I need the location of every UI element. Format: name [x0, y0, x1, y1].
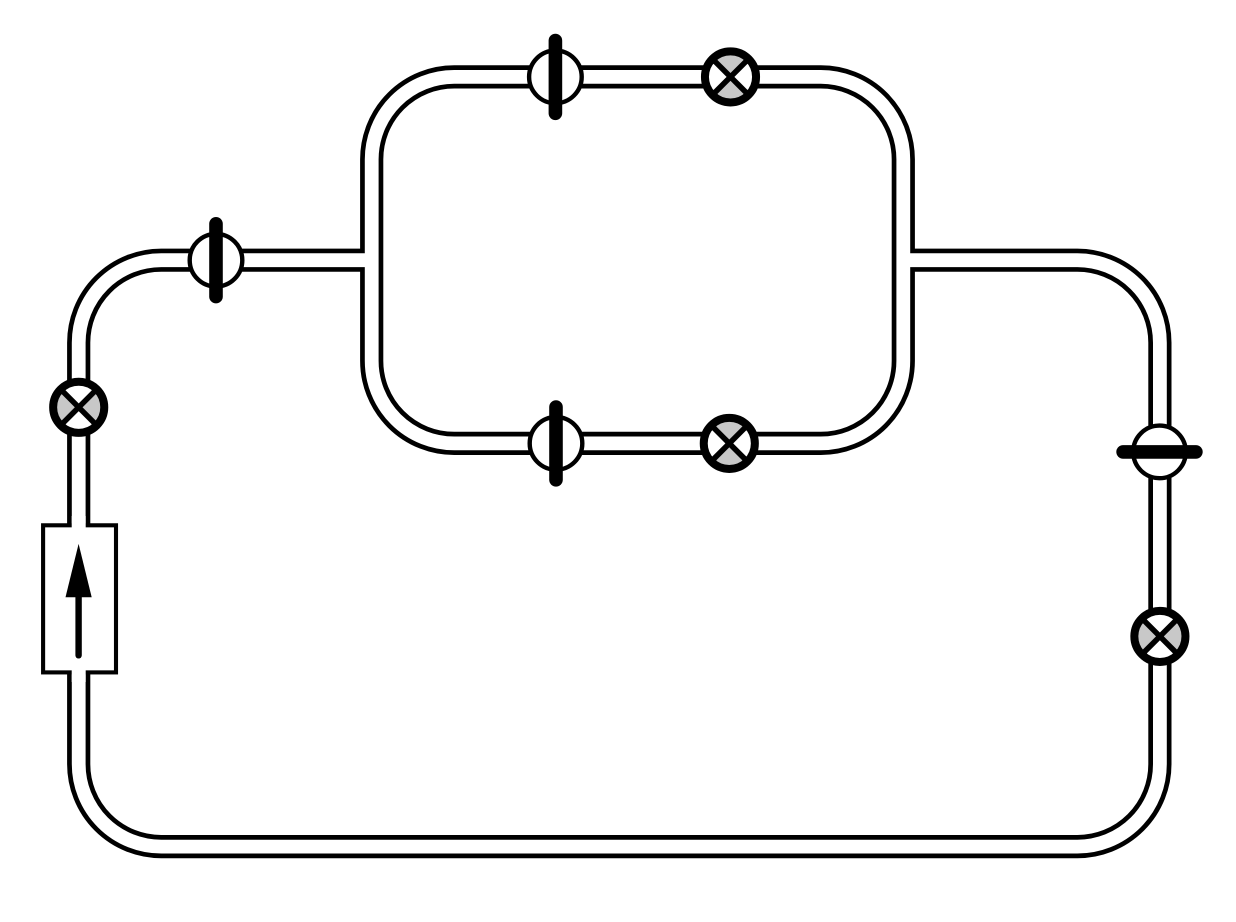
wire main loop (outer circuit, white interior) [79, 260, 1160, 846]
valve V3 (bypass bottom pipe) [530, 407, 583, 480]
wire main loop (outer circuit, black outline) [79, 260, 1160, 846]
flow indicator FI1 (rectangle on left vertical pipe) [43, 516, 116, 682]
fitting X2 crossed circle (bypass bottom pipe) [704, 418, 755, 469]
fitting X4 crossed circle (right vertical pipe) [1134, 611, 1185, 662]
valve V4 (right vertical pipe, horizontal bar) [1123, 426, 1196, 479]
valve V2 (bypass top pipe) [529, 41, 582, 114]
flow arrow (inside flow indicator FI1) [66, 544, 92, 655]
fitting X3 crossed circle (left vertical pipe) [53, 382, 104, 433]
pipe interiors: white layer [79, 77, 1160, 847]
fitting X1 crossed circle (bypass top pipe) [705, 51, 756, 102]
pipe outlines: black layer [79, 77, 1160, 847]
wire bypass loop (inner rounded rectangle, white interior) [372, 77, 904, 444]
wire bypass loop (inner rounded rectangle, black outline) [372, 77, 904, 444]
valve V1 (left horizontal pipe) [190, 224, 243, 297]
